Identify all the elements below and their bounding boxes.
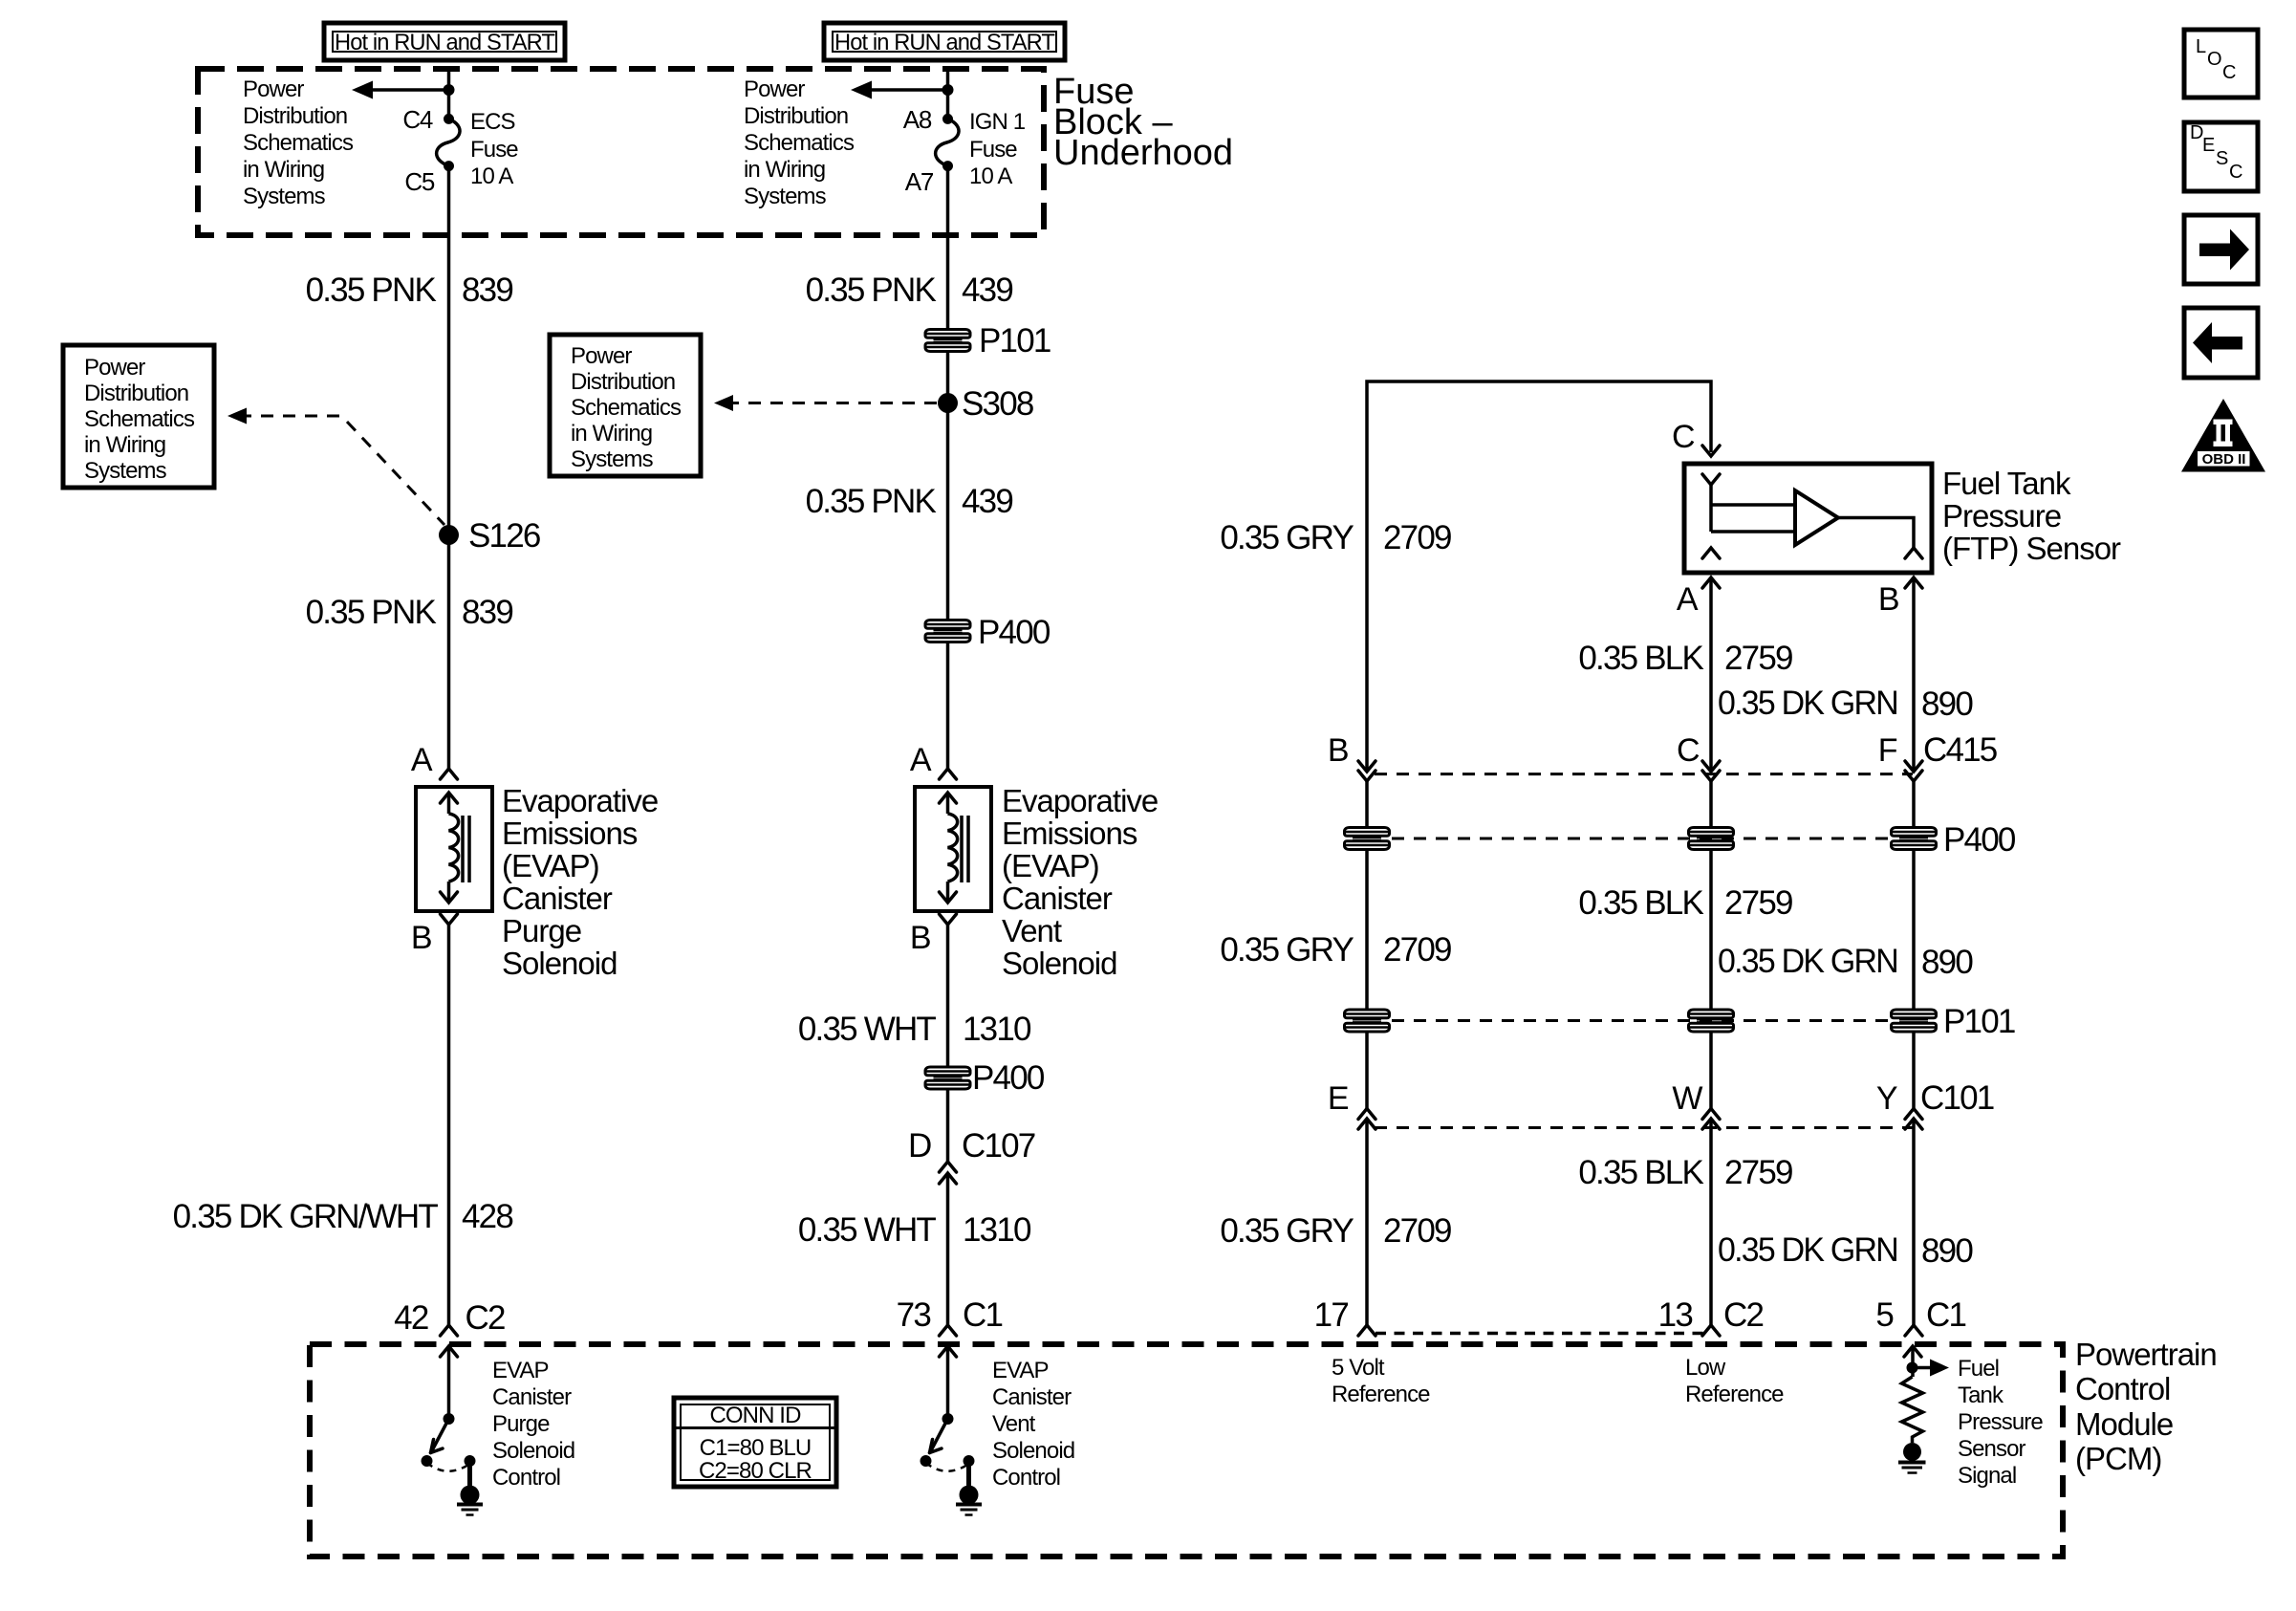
wire label 0.35 BLK 2759 (top): [1578, 640, 1792, 677]
component label: Evaporative Emissions (EVAP) Canister Purge Solenoid: [502, 783, 658, 981]
svg-text:Schematics: Schematics: [744, 130, 855, 156]
wire: BLK 2759 (C415 to P400): [1709, 781, 1713, 828]
junction node on IGN 1 feed: [942, 84, 954, 96]
icon arrow right (hotlink box): [2184, 215, 2258, 284]
EVAP canister purge solenoid L1: [416, 787, 492, 911]
svg-text:439: 439: [962, 272, 1012, 309]
svg-text:2759: 2759: [1724, 640, 1792, 677]
svg-text:Schematics: Schematics: [243, 130, 354, 156]
terminal A of purge solenoid: [411, 742, 458, 779]
wire: WHT 1310 from C107 to PCM pin 73: [946, 1173, 950, 1325]
note "Power Distribution Schematics in Wiring Systems" (inside fuse block, right): [744, 76, 855, 209]
inline connector P400 (three wires): [1345, 821, 2016, 859]
svg-text:C1: C1: [1926, 1296, 1965, 1334]
PCM pin 42 (connector C2): [394, 1299, 505, 1337]
power feed label box "Hot in RUN and START" (left): [324, 23, 565, 60]
dashed reference arrow from S308 to middle note box: [714, 395, 938, 411]
svg-text:ECS: ECS: [470, 109, 515, 135]
ground (FTP signal): [1898, 1443, 1926, 1473]
svg-text:B: B: [411, 920, 431, 956]
svg-text:C415: C415: [1923, 731, 1997, 769]
svg-text:Vent: Vent: [992, 1411, 1036, 1437]
note box "Power Distribution Schematics in Wiring Systems" (middle standalone): [550, 335, 701, 476]
wire: DK GRN 890 from FTP B down to C415: [1912, 577, 1916, 772]
pin label A8: [903, 105, 932, 134]
svg-text:Systems: Systems: [744, 184, 827, 209]
svg-text:Power: Power: [243, 76, 304, 102]
wire label 0.35 GRY 2709 (middle): [1220, 931, 1451, 969]
svg-text:839: 839: [462, 594, 512, 631]
svg-text:Distribution: Distribution: [243, 103, 347, 129]
pin label C5: [404, 167, 434, 196]
pin label C4: [402, 105, 432, 134]
in-line connector C101 (pins E, W, Y): [1328, 1079, 1994, 1129]
wire label 0.35 PNK 439 (upper): [806, 272, 1013, 309]
svg-text:Emissions: Emissions: [502, 816, 638, 851]
svg-text:Emissions: Emissions: [1002, 816, 1137, 851]
label Fuel Tank Pressure Sensor Signal: [1958, 1356, 2043, 1489]
svg-text:C1: C1: [963, 1296, 1002, 1334]
svg-text:Systems: Systems: [243, 184, 326, 209]
svg-text:C2: C2: [466, 1299, 505, 1337]
svg-text:E: E: [1328, 1080, 1349, 1117]
label Powertrain Control Module (PCM): [2075, 1337, 2217, 1476]
svg-text:Solenoid: Solenoid: [992, 1438, 1074, 1464]
wire: PNK 439 from P101 to S308: [946, 351, 950, 403]
wire label 0.35 DK GRN 890 (top): [1718, 685, 1973, 723]
svg-text:A7: A7: [905, 167, 934, 196]
FTP sensor signal input node inside PCM: [1904, 1346, 1949, 1377]
component label: Evaporative Emissions (EVAP) Canister Vent Solenoid: [1002, 783, 1158, 981]
svg-text:Signal: Signal: [1958, 1463, 2016, 1489]
svg-text:C2=80 CLR: C2=80 CLR: [699, 1458, 812, 1484]
splice S308: [938, 385, 1033, 423]
wire label 0.35 DK GRN/WHT 428: [173, 1198, 513, 1235]
wire: DK GRN 890 (P101 to C101): [1912, 1032, 1916, 1109]
terminal B of vent solenoid: [910, 914, 957, 956]
svg-text:CONN ID: CONN ID: [709, 1403, 801, 1428]
svg-text:in Wiring: in Wiring: [744, 157, 825, 183]
svg-text:F: F: [1878, 732, 1897, 769]
PCM pin 13 (connector C2): [1658, 1296, 1764, 1336]
svg-text:Control: Control: [492, 1465, 560, 1491]
value label "ECS Fuse 10 A": [470, 109, 518, 189]
inline connector P400 on wire 1310: [925, 1059, 1045, 1097]
svg-text:A: A: [910, 742, 932, 778]
wire label 0.35 WHT 1310 (lower): [798, 1211, 1031, 1249]
svg-text:(FTP) Sensor: (FTP) Sensor: [1942, 531, 2121, 566]
label "Fuse Block - Underhood": [1053, 72, 1233, 173]
svg-text:0.35 WHT: 0.35 WHT: [798, 1011, 937, 1048]
wire label 0.35 DK GRN 890 (middle): [1718, 943, 1973, 981]
svg-text:IGN 1: IGN 1: [969, 109, 1026, 135]
svg-text:Solenoid: Solenoid: [502, 946, 617, 981]
svg-text:Fuel Tank: Fuel Tank: [1942, 466, 2071, 501]
svg-text:Solenoid: Solenoid: [492, 1438, 574, 1464]
svg-text:(EVAP): (EVAP): [502, 848, 599, 883]
svg-text:Distribution: Distribution: [571, 369, 675, 395]
wire: DK GRN 890 (C101 to PCM pin 5): [1912, 1119, 1916, 1325]
svg-text:C: C: [1672, 419, 1695, 455]
svg-text:10 A: 10 A: [969, 163, 1012, 189]
svg-text:Hot in RUN and START: Hot in RUN and START: [834, 30, 1055, 55]
connector C107 pin D: [908, 1127, 1035, 1184]
svg-text:17: 17: [1314, 1296, 1349, 1334]
label Low Reference: [1685, 1355, 1784, 1407]
svg-text:W: W: [1672, 1080, 1702, 1117]
svg-text:Reference: Reference: [1685, 1382, 1784, 1407]
svg-text:2759: 2759: [1724, 884, 1792, 922]
svg-text:O: O: [2207, 49, 2222, 70]
svg-text:C101: C101: [1920, 1079, 1994, 1117]
terminal C of FTP sensor (arrow into sensor): [1672, 419, 1720, 456]
svg-text:Purge: Purge: [492, 1411, 550, 1437]
svg-text:0.35 DK GRN: 0.35 DK GRN: [1718, 1231, 1897, 1269]
svg-text:Module: Module: [2075, 1406, 2173, 1442]
splice S126: [439, 517, 540, 555]
wire: DK GRN 890 (C415 to P400): [1912, 781, 1916, 828]
svg-text:P400: P400: [1943, 821, 2016, 859]
svg-text:0.35 GRY: 0.35 GRY: [1220, 519, 1354, 556]
wire: GRY 2709 top run (corner to FTP pin C): [1367, 381, 1711, 772]
terminal A of vent solenoid: [910, 742, 957, 779]
svg-text:0.35 PNK: 0.35 PNK: [306, 272, 437, 309]
svg-text:C: C: [2222, 62, 2236, 83]
svg-text:C: C: [2229, 162, 2242, 183]
wire label 0.35 GRY 2709 (top): [1220, 519, 1451, 556]
svg-text:Solenoid: Solenoid: [1002, 946, 1116, 981]
wire label 0.35 WHT 1310 (upper): [798, 1011, 1031, 1048]
svg-text:Pressure: Pressure: [1942, 498, 2061, 533]
icon LOC (hotlink box): [2184, 30, 2258, 98]
svg-text:(EVAP): (EVAP): [1002, 848, 1099, 883]
svg-text:EVAP: EVAP: [992, 1358, 1049, 1383]
svg-text:Canister: Canister: [502, 881, 613, 916]
svg-text:0.35 GRY: 0.35 GRY: [1220, 1212, 1354, 1250]
power feed label box "Hot in RUN and START" (right): [824, 23, 1065, 60]
svg-text:5 Volt: 5 Volt: [1332, 1355, 1385, 1381]
icon OBD II (triangle badge): [2181, 399, 2265, 472]
svg-text:P400: P400: [972, 1059, 1045, 1097]
svg-text:73: 73: [897, 1296, 931, 1334]
svg-text:Power: Power: [744, 76, 805, 102]
wire: DK GRN 890 (P400 to P101): [1912, 849, 1916, 1011]
svg-text:A: A: [1677, 581, 1699, 618]
svg-text:B: B: [1328, 732, 1348, 769]
ground (vent driver): [956, 1486, 982, 1515]
svg-text:S126: S126: [468, 517, 540, 555]
svg-text:C4: C4: [402, 105, 432, 134]
wire label 0.35 DK GRN 890 (lower): [1718, 1231, 1973, 1270]
svg-text:C: C: [1677, 732, 1700, 769]
svg-text:P400: P400: [978, 614, 1051, 651]
icon arrow left (hotlink box): [2184, 308, 2258, 378]
svg-text:Control: Control: [992, 1465, 1060, 1491]
svg-text:C2: C2: [1723, 1296, 1763, 1334]
svg-text:Canister: Canister: [1002, 881, 1113, 916]
svg-text:Pressure: Pressure: [1958, 1409, 2043, 1435]
svg-text:42: 42: [394, 1299, 428, 1337]
wire: PNK 439 from S308 to P400: [946, 403, 950, 621]
PCM pin 5 (connector C1): [1875, 1296, 1965, 1336]
svg-text:Control: Control: [2075, 1371, 2170, 1406]
svg-text:S308: S308: [962, 385, 1033, 423]
svg-text:(PCM): (PCM): [2075, 1441, 2161, 1476]
svg-text:Tank: Tank: [1958, 1382, 2004, 1408]
pin label A7: [905, 167, 934, 196]
inline connector P101 (three wires): [1345, 1003, 2015, 1040]
vent solenoid control driver (low-side switch): [921, 1346, 975, 1488]
svg-text:E: E: [2202, 135, 2215, 156]
svg-text:Powertrain: Powertrain: [2075, 1337, 2217, 1372]
svg-text:Canister: Canister: [492, 1384, 572, 1410]
svg-text:A: A: [411, 742, 433, 778]
CONN ID table: [674, 1398, 836, 1487]
wire: GRY 2709 (P101 to C101): [1365, 1032, 1369, 1109]
label EVAP Canister Purge Solenoid Control: [492, 1358, 574, 1491]
svg-text:Reference: Reference: [1332, 1382, 1430, 1407]
svg-text:1310: 1310: [963, 1211, 1031, 1249]
svg-text:2759: 2759: [1724, 1154, 1792, 1191]
svg-text:in Wiring: in Wiring: [243, 157, 324, 183]
svg-text:EVAP: EVAP: [492, 1358, 549, 1383]
svg-text:Power: Power: [84, 355, 145, 381]
svg-text:0.35 BLK: 0.35 BLK: [1578, 884, 1703, 922]
wire: feed from fuse block top to ECS fuse: [447, 69, 451, 119]
resistor R (FTP signal pull): [1902, 1377, 1923, 1443]
label 5 Volt Reference: [1332, 1355, 1430, 1407]
arrow to power distribution (left fuse): [352, 81, 449, 99]
wire: PNK 839 from fuse C5 to S126: [447, 166, 451, 535]
svg-text:1310: 1310: [963, 1011, 1031, 1048]
svg-text:Systems: Systems: [84, 458, 167, 484]
svg-text:0.35 DK GRN: 0.35 DK GRN: [1718, 685, 1897, 722]
svg-text:in Wiring: in Wiring: [84, 432, 165, 458]
svg-text:Evaporative: Evaporative: [1002, 783, 1158, 818]
svg-text:P101: P101: [1943, 1003, 2015, 1040]
svg-text:Purge: Purge: [502, 913, 581, 948]
wire label 0.35 PNK 439 (lower): [806, 483, 1013, 520]
inline connector P101 on wire 439: [925, 322, 1051, 359]
icon DESC (hotlink box): [2184, 122, 2258, 191]
fuse F2 IGN 1 (terminals A8/A7): [936, 114, 959, 171]
svg-text:Distribution: Distribution: [744, 103, 848, 129]
svg-text:Fuse: Fuse: [969, 137, 1017, 163]
terminal A of FTP sensor: [1677, 577, 1720, 618]
svg-text:Low: Low: [1685, 1355, 1726, 1381]
svg-text:0.35 GRY: 0.35 GRY: [1220, 931, 1354, 969]
svg-text:B: B: [910, 920, 930, 956]
terminal B of FTP sensor: [1878, 577, 1922, 618]
in-line connector C415 (pins B, C, F): [1328, 731, 1997, 781]
svg-text:439: 439: [962, 483, 1012, 520]
svg-text:in Wiring: in Wiring: [571, 421, 652, 446]
PCM pin 17: [1314, 1296, 1375, 1336]
inline connector P400 on wire 439: [925, 614, 1051, 651]
wire: WHT 1310 from P400 to C107 pin D: [946, 1089, 950, 1163]
svg-text:0.35 PNK: 0.35 PNK: [806, 483, 937, 520]
svg-text:OBD II: OBD II: [2202, 451, 2246, 468]
svg-text:Hot in RUN and START: Hot in RUN and START: [335, 30, 555, 55]
wire label 0.35 GRY 2709 (lower): [1220, 1212, 1451, 1250]
PCM connector C2 dashed link between pins 17 and 13: [1375, 1332, 1703, 1336]
dashed reference arrow from S126 to note box: [227, 408, 444, 526]
svg-text:428: 428: [462, 1198, 512, 1235]
svg-text:2709: 2709: [1383, 931, 1451, 969]
arrow to power distribution (right fuse): [851, 81, 948, 99]
wire label 0.35 BLK 2759 (middle): [1578, 884, 1792, 922]
svg-text:0.35 DK GRN/WHT: 0.35 DK GRN/WHT: [173, 1198, 439, 1235]
powertrain control module (PCM) dashed box: [310, 1344, 2063, 1557]
svg-text:Schematics: Schematics: [84, 406, 195, 432]
svg-text:890: 890: [1921, 1232, 1973, 1270]
wire label 0.35 PNK 839 (upper): [306, 272, 513, 309]
svg-text:Distribution: Distribution: [84, 381, 188, 406]
wire: BLK 2759 (P400 to P101): [1709, 849, 1713, 1011]
svg-text:0.35 BLK: 0.35 BLK: [1578, 1154, 1703, 1191]
svg-text:Fuel: Fuel: [1958, 1356, 1999, 1382]
svg-text:Sensor: Sensor: [1958, 1436, 2026, 1462]
wire: PNK 439 from P400 to vent solenoid terminal A: [946, 642, 950, 771]
wire: DK GRN/WHT 428 from purge solenoid B to PCM pin 42: [447, 925, 451, 1325]
svg-text:Fuse: Fuse: [470, 137, 518, 163]
note "Power Distribution Schematics in Wiring Systems" (inside fuse block, left): [243, 76, 354, 209]
svg-text:D: D: [908, 1127, 931, 1165]
wire: PNK 439 from fuse A7 to P101: [946, 166, 950, 330]
svg-text:S: S: [2216, 148, 2228, 169]
svg-text:Systems: Systems: [571, 446, 654, 472]
EVAP canister vent solenoid L2: [915, 787, 991, 911]
wire: feed from fuse block top to IGN 1 fuse: [946, 69, 950, 119]
svg-text:Schematics: Schematics: [571, 395, 682, 421]
svg-text:5: 5: [1875, 1296, 1893, 1334]
terminal B of purge solenoid: [411, 914, 458, 956]
svg-text:B: B: [1878, 581, 1898, 618]
purge solenoid control driver (low-side switch): [422, 1346, 476, 1488]
svg-text:C1=80 BLU: C1=80 BLU: [700, 1435, 812, 1461]
svg-text:2709: 2709: [1383, 519, 1451, 556]
label EVAP Canister Vent Solenoid Control: [992, 1358, 1074, 1491]
wire: PNK 839 from S126 to purge solenoid terminal A: [447, 535, 451, 772]
svg-text:13: 13: [1658, 1296, 1693, 1334]
ground (purge driver): [457, 1486, 483, 1515]
svg-text:C5: C5: [404, 167, 434, 196]
svg-text:Underhood: Underhood: [1053, 133, 1233, 173]
svg-text:0.35 BLK: 0.35 BLK: [1578, 640, 1703, 677]
svg-text:890: 890: [1921, 686, 1973, 723]
svg-text:0.35 WHT: 0.35 WHT: [798, 1211, 937, 1249]
junction node on ECS feed: [444, 84, 455, 96]
wire label 0.35 PNK 839 (lower): [306, 594, 513, 631]
svg-text:839: 839: [462, 272, 512, 309]
svg-text:Canister: Canister: [992, 1384, 1072, 1410]
value label "IGN 1 Fuse 10 A": [969, 109, 1026, 189]
wire: GRY 2709 (C101 to PCM pin 17): [1365, 1119, 1369, 1325]
wire: BLK 2759 (C101 to PCM pin 13): [1709, 1119, 1713, 1325]
svg-text:0.35 DK GRN: 0.35 DK GRN: [1718, 943, 1897, 980]
svg-text:P101: P101: [979, 322, 1051, 359]
note box "Power Distribution Schematics in Wiring Systems" (left standalone): [63, 345, 214, 488]
svg-text:0.35 PNK: 0.35 PNK: [306, 594, 437, 631]
wire: GRY 2709 (C415 to P400): [1365, 781, 1369, 828]
svg-text:Y: Y: [1876, 1080, 1897, 1117]
fuse F1 ECS (terminals C4/C5): [437, 114, 460, 171]
svg-text:Evaporative: Evaporative: [502, 783, 658, 818]
svg-text:Vent: Vent: [1002, 913, 1062, 948]
fuel tank pressure (FTP) sensor U1: [1684, 464, 1932, 573]
svg-text:L: L: [2196, 36, 2206, 57]
svg-text:10 A: 10 A: [470, 163, 513, 189]
svg-text:Power: Power: [571, 343, 632, 369]
fuse block - underhood (dashed outline): [198, 69, 1044, 235]
component label: Fuel Tank Pressure (FTP) Sensor: [1942, 466, 2121, 566]
svg-text:890: 890: [1921, 944, 1973, 981]
wire: WHT 1310 from vent solenoid B to P400: [946, 925, 950, 1068]
PCM pin 73 (connector C1): [897, 1296, 1003, 1336]
svg-text:2709: 2709: [1383, 1212, 1451, 1250]
svg-text:0.35 PNK: 0.35 PNK: [806, 272, 937, 309]
svg-text:C107: C107: [962, 1127, 1035, 1165]
svg-text:A8: A8: [903, 105, 932, 134]
wire: BLK 2759 (P101 to C101): [1709, 1032, 1713, 1109]
wire: BLK 2759 from FTP A down to C415: [1709, 577, 1713, 772]
wire: GRY 2709 (P400 to P101): [1365, 849, 1369, 1011]
wire label 0.35 BLK 2759 (lower): [1578, 1154, 1792, 1191]
